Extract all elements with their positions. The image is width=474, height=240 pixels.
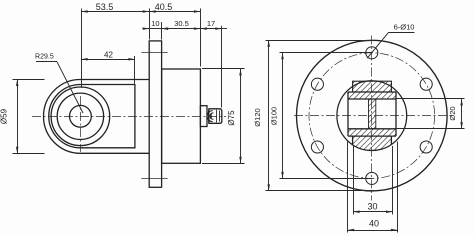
svg-text:10: 10 — [151, 19, 159, 28]
svg-text:30: 30 — [367, 201, 377, 211]
svg-text:17: 17 — [207, 19, 215, 28]
svg-text:Ø100: Ø100 — [269, 107, 278, 125]
svg-text:40: 40 — [369, 219, 379, 229]
svg-text:40.5: 40.5 — [155, 2, 173, 12]
svg-text:Ø20: Ø20 — [448, 106, 457, 120]
svg-text:Ø75: Ø75 — [227, 110, 236, 126]
svg-text:R29.5: R29.5 — [35, 54, 54, 61]
svg-text:Ø120: Ø120 — [253, 108, 262, 126]
svg-text:30.5: 30.5 — [174, 19, 189, 28]
svg-text:6-Ø10: 6-Ø10 — [394, 22, 415, 31]
svg-text:Ø59: Ø59 — [0, 108, 9, 124]
svg-text:42: 42 — [104, 51, 113, 60]
svg-text:53.5: 53.5 — [96, 2, 114, 12]
